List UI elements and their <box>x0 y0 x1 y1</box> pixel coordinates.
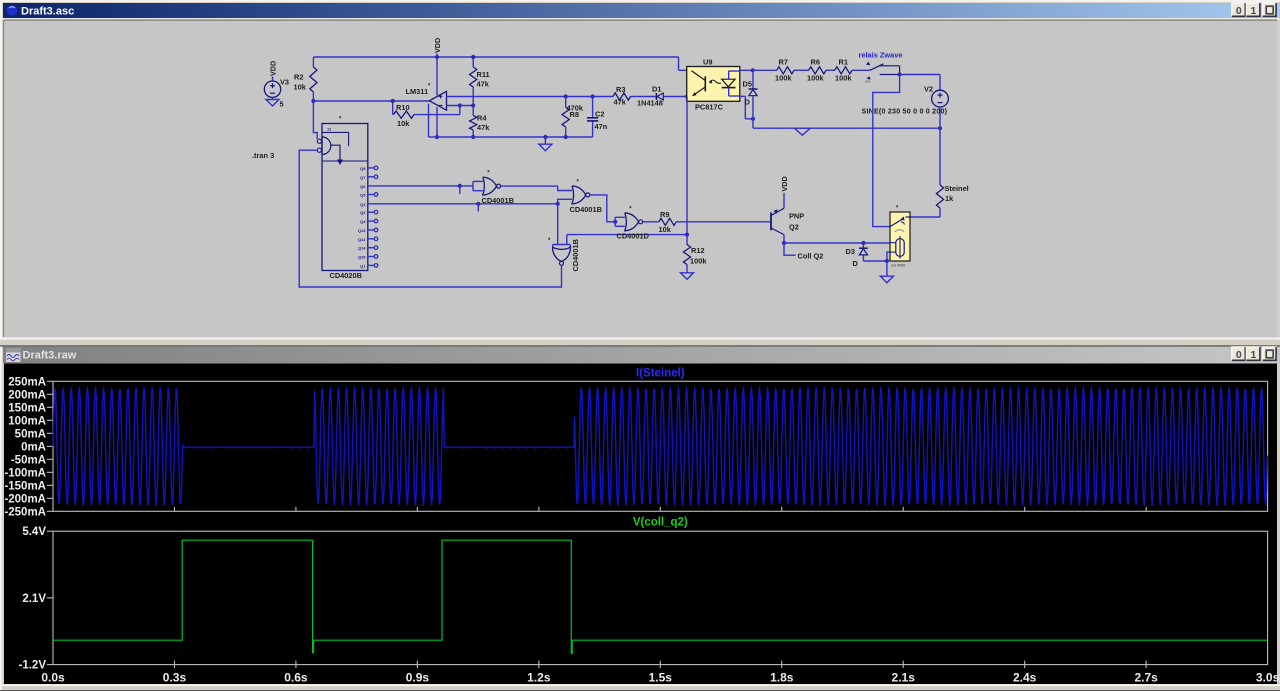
wire into U9 pin1 <box>679 69 687 71</box>
svg-text:R4: R4 <box>477 114 487 123</box>
wire gate2 out to gate3 <box>590 195 615 222</box>
wire clock feed to CD4020 <box>313 101 317 139</box>
svg-text:R7: R7 <box>779 58 788 67</box>
svg-text:Q5: Q5 <box>360 193 366 198</box>
svg-text:R10: R10 <box>396 103 410 112</box>
svg-text:CD4020B: CD4020B <box>330 271 362 280</box>
resistor R3 body <box>613 93 631 100</box>
wire U9 pin4 to R7 <box>740 69 777 71</box>
U9 internal LED <box>722 79 735 87</box>
resistor R8 470k <box>565 97 567 108</box>
svg-text:D5: D5 <box>743 80 752 89</box>
svg-text:CD4001B: CD4001B <box>570 205 602 214</box>
svg-text:2.7s: 2.7s <box>1134 671 1158 685</box>
svg-text:100k: 100k <box>775 74 792 83</box>
wire gate3 out to R9 <box>643 221 659 223</box>
wire top VDD rail <box>313 56 678 58</box>
svg-text:100k: 100k <box>835 74 852 83</box>
svg-text:R6: R6 <box>811 58 820 67</box>
node U9pin2/vertical <box>685 94 689 98</box>
plot pane 1 border <box>53 381 1268 511</box>
svg-text:R1: R1 <box>839 58 848 67</box>
svg-text:0: 0 <box>1236 5 1242 17</box>
wire LM311 V- pin <box>436 107 438 137</box>
wire CD4020 Q to gate2/gate4 <box>368 203 558 205</box>
resistor Steinel 1k <box>939 128 941 185</box>
wire gate2 lower input <box>558 199 572 204</box>
gnd V3 <box>266 100 279 107</box>
CD4020 internal clk route <box>323 131 349 133</box>
IC CD4020B binary counter <box>322 124 368 271</box>
switch contact upper <box>879 65 899 67</box>
node VDD rail / R11 <box>471 55 475 59</box>
wire R9 to Q2 base <box>676 221 771 223</box>
resistor R10 10k <box>392 101 394 115</box>
node R8 bottom <box>564 135 568 139</box>
resistor R4 47k <box>472 106 474 116</box>
titlebar buttons (schematic window) <box>1232 3 1246 17</box>
svg-text:1N4148: 1N4148 <box>637 99 663 108</box>
svg-text:U9: U9 <box>703 58 712 67</box>
wire switch to V2 <box>900 74 940 76</box>
svg-text:V(coll_q2): V(coll_q2) <box>633 517 688 529</box>
svg-text:47n: 47n <box>595 122 608 131</box>
wire LM311 gnd pin <box>428 104 430 137</box>
svg-text:10k: 10k <box>397 119 410 128</box>
svg-text:Steinel: Steinel <box>945 184 969 193</box>
wire Q2 collector down <box>783 235 785 243</box>
schematic window icon <box>7 5 17 15</box>
svg-text:CD4001B: CD4001B <box>571 239 580 271</box>
svg-text:5: 5 <box>280 100 284 109</box>
svg-text:Q2: Q2 <box>789 222 799 231</box>
ground flag R12 <box>681 273 694 280</box>
ground flag relay <box>880 276 893 283</box>
svg-text:Q7: Q7 <box>360 175 366 180</box>
node D5 top <box>751 68 755 72</box>
svg-text:1: 1 <box>1250 5 1256 17</box>
wire D1 to U9 pin2 <box>664 96 689 98</box>
svg-text:47k: 47k <box>477 123 490 132</box>
svg-text:-50mA: -50mA <box>11 454 46 466</box>
node D5 bottom <box>751 117 755 121</box>
resistor R4 body <box>470 116 477 131</box>
svg-text:R11: R11 <box>477 70 490 79</box>
wire LM311 V+ pin <box>436 57 438 95</box>
relay coil symbol <box>896 239 904 257</box>
U9 LED cathode wire <box>728 88 730 96</box>
svg-text:-250mA: -250mA <box>4 506 46 518</box>
node stub B <box>476 202 480 206</box>
wire U9 pin2 to R12 node <box>686 97 688 235</box>
svg-text:50mA: 50mA <box>15 428 46 440</box>
waveform window frame <box>0 347 1280 691</box>
svg-text:Q2: Q2 <box>360 210 366 215</box>
node relay gnd <box>885 259 889 263</box>
wire LM311 -input <box>447 105 474 107</box>
svg-text:VDD: VDD <box>269 61 278 76</box>
svg-text:1.5s: 1.5s <box>649 671 673 685</box>
svg-text:D3: D3 <box>846 247 855 256</box>
resistor R10 body <box>394 111 415 118</box>
resistor R7 body <box>777 67 794 74</box>
svg-text:Q13: Q13 <box>358 228 366 233</box>
resistor R2 body <box>310 67 317 92</box>
svg-text:V3: V3 <box>280 78 289 87</box>
U9 coupling squiggle <box>710 80 722 83</box>
diode D5 <box>752 70 754 88</box>
resistor R8 body <box>562 107 569 127</box>
U9 LED anode wire <box>728 71 730 79</box>
svg-text:VDD: VDD <box>433 38 442 53</box>
svg-text:-100mA: -100mA <box>4 467 46 479</box>
schematic window title bar <box>3 3 1280 18</box>
node V2- / Steinel <box>938 126 942 130</box>
svg-text:2.1s: 2.1s <box>892 671 916 685</box>
svg-text:1k: 1k <box>945 194 954 203</box>
resistor R9 body <box>659 218 676 225</box>
wire CD4020 Q to gate1 <box>368 185 473 187</box>
resistor R12 100k <box>686 235 688 245</box>
CD4020 clock gate <box>322 137 331 155</box>
wire switch to relay common <box>873 75 900 227</box>
svg-text:Q3: Q3 <box>360 202 366 207</box>
svg-text:0.3s: 0.3s <box>163 671 187 685</box>
resistor R11 47k <box>472 57 474 67</box>
wire Coll Q2 to relay coil <box>784 242 890 244</box>
resistor R6 body <box>809 67 826 74</box>
svg-text:1.8s: 1.8s <box>770 671 794 685</box>
node C2 top <box>591 94 595 98</box>
wire rail drop to U9 <box>678 57 680 70</box>
capacitor C2 47n <box>592 97 594 118</box>
ground flag on neutral rail <box>794 128 810 135</box>
relay blade <box>890 219 904 227</box>
wire R3 to D1 <box>631 96 657 98</box>
schematic client area <box>2 18 1280 20</box>
resistor R1 100k <box>826 69 835 71</box>
resistor R12 body <box>683 245 690 265</box>
node gnd tap <box>543 135 547 139</box>
svg-text:SINE(0 230 50 0 0 0 200): SINE(0 230 50 0 0 0 200) <box>862 108 948 116</box>
svg-text:VDD: VDD <box>780 176 789 191</box>
Q2 bar <box>770 213 772 231</box>
resistor Steinel body <box>936 185 943 208</box>
node R12 / gate4 <box>685 233 689 237</box>
svg-text:100k: 100k <box>690 257 707 266</box>
plot pane 2 border <box>53 531 1268 664</box>
wire stub A <box>459 186 461 194</box>
Q2 collector <box>771 228 784 235</box>
svg-text:2.4s: 2.4s <box>1013 671 1037 685</box>
CD4020 clock arrow line <box>331 145 340 160</box>
svg-text:R9: R9 <box>660 210 669 219</box>
diode D1 1N4148 <box>655 93 657 100</box>
switch contact lower <box>880 74 900 76</box>
node switch output <box>898 72 902 76</box>
wire Q2 emitter to VDD <box>783 193 785 209</box>
svg-text:sw: sw <box>865 79 871 84</box>
node VDD flag above LM311 <box>436 54 438 58</box>
svg-text:Q6: Q6 <box>360 184 366 189</box>
svg-text:200mA: 200mA <box>8 389 46 401</box>
svg-text:V2: V2 <box>924 85 933 94</box>
svg-text:D: D <box>853 259 859 268</box>
svg-text:Q1: Q1 <box>360 263 366 268</box>
wire R1 to switch <box>852 69 870 71</box>
Q2 emitter <box>771 208 784 215</box>
wire gate1 out <box>501 185 558 187</box>
CD4020 divider line <box>322 160 368 162</box>
svg-text:10k: 10k <box>294 83 307 92</box>
ground flag mid <box>539 144 552 151</box>
wire Steinel to relay NO <box>910 216 940 218</box>
voltage source V2 SINE <box>932 90 949 107</box>
svg-text:0.9s: 0.9s <box>406 671 430 685</box>
svg-text:R3: R3 <box>616 85 625 94</box>
gate3 input bridge <box>614 217 616 226</box>
svg-text:CD4001D: CD4001D <box>617 231 650 240</box>
svg-text:relais Zwave: relais Zwave <box>859 51 903 60</box>
diode D3 <box>862 243 864 248</box>
op-amp comparator U? LM311 (mirrored) <box>429 91 446 110</box>
node stub A <box>458 184 462 188</box>
svg-text:0mA: 0mA <box>21 441 46 453</box>
svg-text:R12: R12 <box>691 246 705 255</box>
gate2 body <box>572 186 586 204</box>
svg-text:100k: 100k <box>807 74 824 83</box>
wire stub B <box>477 204 479 212</box>
svg-text:5.4V: 5.4V <box>22 526 46 538</box>
node Coll Q2 <box>782 241 786 245</box>
wire to D3 bottom <box>863 260 887 262</box>
opto-coupler U9 PC817C <box>687 67 740 102</box>
resistor R11 body <box>470 67 477 87</box>
resistor R6 100k <box>794 69 809 71</box>
svg-text:250mA: 250mA <box>8 376 46 388</box>
waveform client area <box>4 364 1277 685</box>
svg-text:C2: C2 <box>595 110 604 119</box>
gate1 input bridge <box>472 181 474 190</box>
node R10 tap <box>391 99 395 103</box>
svg-text:100mA: 100mA <box>8 415 46 427</box>
wire relay coil- out <box>887 252 890 261</box>
svg-text:Q14: Q14 <box>358 246 366 251</box>
svg-text:D: D <box>745 98 751 107</box>
resistor R1 body <box>835 67 852 74</box>
gate4 input bridge <box>553 244 571 246</box>
wire D5 to neutral rail <box>752 119 754 128</box>
waveform trace I(Steinel) <box>53 387 1267 506</box>
waveform window icon <box>6 348 21 362</box>
svg-text:2.1V: 2.1V <box>22 593 46 605</box>
wire LM311 bottom rail <box>429 136 593 138</box>
wire U9 pin3 <box>740 95 746 97</box>
svg-text:Q4: Q4 <box>360 219 366 224</box>
node R2/LM311out junction <box>311 99 315 103</box>
svg-text:R2: R2 <box>294 73 303 82</box>
svg-text:CD4001B: CD4001B <box>482 196 514 205</box>
svg-text:I(Steinel): I(Steinel) <box>636 367 685 379</box>
waveform trace V(coll_q2) <box>53 540 1268 653</box>
svg-text:0.6s: 0.6s <box>284 671 308 685</box>
svg-text:PC817C: PC817C <box>695 103 724 112</box>
node gate2/gate4 split <box>556 202 560 206</box>
svg-text:D1: D1 <box>652 85 661 94</box>
svg-text:0.0s: 0.0s <box>41 671 65 685</box>
svg-text:Coll Q2: Coll Q2 <box>798 251 824 260</box>
switch blade <box>870 64 884 71</box>
node D3 top <box>861 241 865 245</box>
wire gate4 out feedback to CD4020 <box>299 150 561 287</box>
svg-text:0: 0 <box>1236 349 1242 361</box>
node R8 top <box>564 94 568 98</box>
resistor R2 10k <box>312 57 314 67</box>
svg-text:w1 9000: w1 9000 <box>891 264 906 268</box>
titlebar buttons (waveform window) <box>1232 347 1246 361</box>
svg-text:Draft3.asc: Draft3.asc <box>21 6 74 18</box>
wire +input rail to R3 <box>447 96 614 98</box>
wire gate1 out jog <box>558 186 572 190</box>
svg-text:R8: R8 <box>570 110 579 119</box>
U9 phototransistor base bar <box>704 76 706 91</box>
wire Coll Q2 label stub <box>784 243 796 255</box>
gate3 body <box>625 213 639 231</box>
svg-text:150mA: 150mA <box>8 402 46 414</box>
svg-text:Q15: Q15 <box>358 255 366 260</box>
wire LM311 output rail <box>313 100 429 102</box>
svg-text:47k: 47k <box>477 80 490 89</box>
svg-text:.tran 3: .tran 3 <box>252 151 274 160</box>
gate1 body <box>483 177 497 195</box>
svg-text:LM311: LM311 <box>406 87 429 96</box>
svg-text:Draft3.raw: Draft3.raw <box>23 350 77 362</box>
svg-text:3.0s: 3.0s <box>1256 671 1280 685</box>
svg-text:1.2s: 1.2s <box>527 671 551 685</box>
svg-text:-200mA: -200mA <box>4 493 46 505</box>
node VDD rail / LM311 V+ <box>435 55 439 59</box>
relay (yellow) <box>890 212 910 261</box>
svg-text:-150mA: -150mA <box>4 480 46 492</box>
svg-text:1: 1 <box>1250 349 1256 361</box>
svg-text:10k: 10k <box>659 225 672 234</box>
wire neutral rail <box>753 127 940 129</box>
wire to gate4 inputs <box>557 204 559 245</box>
wire gnd stub <box>544 137 546 144</box>
svg-text:Q9: Q9 <box>360 166 366 171</box>
svg-text:Q12: Q12 <box>358 237 366 242</box>
wire gate4 input rail <box>567 234 687 236</box>
voltage source V3 <box>264 81 280 97</box>
svg-text:PNP: PNP <box>789 211 804 220</box>
svg-text:47k: 47k <box>614 98 627 107</box>
